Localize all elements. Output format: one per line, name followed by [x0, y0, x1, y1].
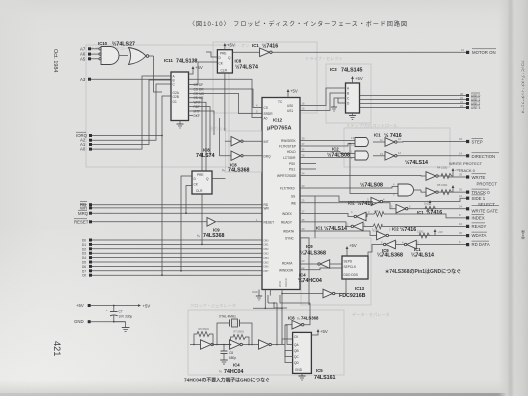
- svg-text:ドライブ・セレクト: ドライブ・セレクト: [305, 55, 343, 62]
- wire FF CLR down to interrupt buffers: [224, 73, 226, 131]
- wire osc to 161 clock: [282, 339, 293, 345]
- svg-text:½74LS08: ½74LS08: [360, 182, 383, 189]
- gate IC10a 74LS27 NOR: [99, 47, 128, 65]
- wire decoder out6 down: [189, 107, 211, 155]
- output terminal STEP: [459, 137, 483, 145]
- svg-text:11: 11: [380, 138, 383, 142]
- svg-text:13: 13: [380, 152, 383, 156]
- svg-text:IC1: IC1: [316, 226, 323, 231]
- svg-text:QB: QB: [294, 349, 299, 353]
- svg-text:6: 6: [459, 240, 461, 244]
- svg-text:D4: D4: [82, 256, 86, 260]
- svg-text:25: 25: [302, 199, 305, 203]
- svg-text:DB7: DB7: [264, 269, 270, 273]
- svg-text:421: 421: [52, 341, 62, 356]
- inverter 7416 write protect: [426, 172, 466, 181]
- svg-text:A7: A7: [80, 46, 86, 51]
- svg-text:12: 12: [459, 194, 462, 198]
- svg-text:½7416: ½7416: [357, 200, 373, 207]
- buffer IC9 74LS368 on reset: [207, 218, 262, 227]
- pullup resistor wdata: [417, 229, 443, 238]
- svg-text:150Ω: 150Ω: [417, 230, 423, 234]
- svg-text:TRACK 0: TRACK 0: [458, 168, 476, 173]
- wire US1 to 145 B: [300, 93, 346, 111]
- svg-text:WPRT/2SIDE: WPRT/2SIDE: [277, 174, 296, 178]
- svg-text:74LS368: 74LS368: [228, 168, 250, 174]
- label IC8 1/2 74LS74: [235, 59, 259, 71]
- wire window vertical: [314, 196, 316, 238]
- wire decoder out1 to FF clock: [189, 62, 218, 85]
- input terminal A1: [80, 142, 92, 147]
- label IC3 74LS145: [330, 67, 363, 73]
- gate pin numbers: [347, 136, 419, 244]
- svg-text:4: 4: [351, 210, 353, 214]
- +5V arrow at FF preset: [224, 43, 235, 50]
- svg-text:12: 12: [398, 151, 401, 155]
- label IC13 FDC9216B: [339, 286, 366, 299]
- section box: data separator: [301, 238, 371, 305]
- input terminal RD DATA: [459, 240, 490, 247]
- svg-text:D2: D2: [82, 247, 86, 251]
- svg-text:⅓: ⅓: [222, 169, 225, 173]
- buffer IC8 74LS368 a: [225, 137, 262, 146]
- svg-text:A0: A0: [264, 116, 268, 120]
- inverter 74HC04 osc3: [259, 340, 286, 349]
- svg-text:第10章: 第10章: [521, 230, 526, 239]
- svg-text:WRF: WRF: [194, 101, 201, 105]
- wire decoder out5 down: [189, 102, 207, 176]
- svg-text:74HC04の不要入力端子はGNDにつなぐ: 74HC04の不要入力端子はGNDにつなぐ: [184, 377, 270, 384]
- svg-text:680p: 680p: [229, 356, 236, 360]
- svg-text:74LS368: 74LS368: [301, 316, 319, 321]
- section box: clock generator: [188, 310, 344, 375]
- output terminal USE2: [460, 100, 480, 106]
- uPD765A pin numbers: [256, 102, 305, 270]
- svg-text:IC9: IC9: [213, 228, 220, 233]
- IC5 74LS161: [293, 332, 312, 373]
- svg-text:A5: A5: [80, 56, 86, 61]
- wire decoder out3 to uPD765 A0pin: [189, 93, 263, 113]
- svg-text:3: 3: [417, 240, 419, 244]
- svg-text:WE: WE: [291, 201, 296, 205]
- svg-text:データ・セパレータ: データ・セパレータ: [352, 311, 390, 318]
- svg-text:R6 560Ω: R6 560Ω: [199, 327, 209, 331]
- wire SYNC down to separator: [300, 238, 309, 305]
- right page edge text: [521, 60, 526, 239]
- svg-text:IC1: IC1: [252, 43, 259, 48]
- wire FLTR/STEP to gate: [300, 144, 355, 147]
- data bus D6: [82, 265, 262, 269]
- page margin note Oct.1984: [52, 49, 58, 72]
- schmitt inverter 74LS14 index: [300, 212, 466, 221]
- buffer IC9 74LS368 sepd: [300, 260, 342, 269]
- input terminal GND: [74, 319, 126, 324]
- svg-text:74LS74: 74LS74: [196, 153, 215, 159]
- svg-text:FLTR/STEP: FLTR/STEP: [279, 145, 296, 149]
- wire HDLD to gate: [300, 152, 355, 154]
- svg-text:10V 330μ: 10V 330μ: [119, 315, 133, 319]
- capacitor C8 680p: [221, 345, 237, 361]
- AND gate IC2a 74LS08: [355, 138, 385, 147]
- svg-text:+5V: +5V: [76, 303, 84, 308]
- data bus CLK: [82, 274, 262, 278]
- label IC1 1/2 7416: [252, 42, 278, 49]
- output terminal SIDE 1 SELECT: [459, 194, 495, 207]
- svg-text:TC: TC: [278, 100, 283, 104]
- wire IORQ to decoder G2A: [92, 96, 171, 136]
- label IC9 74LS368: [197, 228, 225, 240]
- decoder output net labels: [194, 83, 205, 118]
- svg-text:INDEX: INDEX: [472, 216, 485, 221]
- output terminal MOTOR ON: [461, 48, 496, 55]
- svg-text:½74LS14: ½74LS14: [405, 159, 428, 166]
- input terminal RESET: [74, 219, 207, 225]
- svg-text:D7: D7: [82, 269, 86, 273]
- wire FF2 Q stub: [212, 178, 225, 180]
- label IC6 74LS368: [288, 316, 319, 321]
- label IC9 74LS368 sepd: [300, 244, 326, 257]
- input terminal +5V: [76, 303, 150, 308]
- svg-text:+5V: +5V: [195, 65, 203, 70]
- svg-text:〈図10-10〉 フロッピ・ディスク・インターフェース・ボー: 〈図10-10〉 フロッピ・ディスク・インターフェース・ボード回路図: [189, 20, 407, 28]
- wire 145 out to USE2: [360, 103, 467, 105]
- output terminal WRITE PROTECT: [459, 173, 497, 187]
- svg-text:A0: A0: [80, 147, 86, 152]
- +5V arrow at 74LS161: [311, 329, 327, 335]
- junction dot cap: [113, 305, 115, 307]
- svg-text:74LS161: 74LS161: [314, 375, 336, 381]
- svg-text:IC8: IC8: [203, 148, 210, 153]
- input terminal A0: [80, 147, 92, 152]
- svg-text:30: 30: [459, 231, 462, 235]
- svg-text:DB5: DB5: [264, 260, 270, 264]
- output terminal USE1: [460, 96, 480, 102]
- svg-text:IC10: IC10: [98, 41, 108, 46]
- svg-text:RDF: RDF: [194, 105, 201, 109]
- buffer IC8 74LS368 b: [220, 118, 262, 160]
- svg-text:WDATA: WDATA: [283, 230, 295, 234]
- AND gate IC2b 74LS08: [355, 151, 385, 160]
- wire WPRT to inverter: [300, 175, 426, 178]
- inverter 7416 direction: [385, 152, 466, 161]
- svg-text:MTF: MTF: [194, 109, 201, 113]
- svg-text:36: 36: [302, 148, 305, 152]
- label IC11 74LS138: [164, 58, 198, 65]
- data bus D4: [82, 256, 262, 260]
- svg-text:74LS138: 74LS138: [176, 59, 198, 65]
- ground symbol power: [122, 322, 130, 332]
- data bus D7: [82, 269, 262, 273]
- svg-text:¼74LS368: ¼74LS368: [377, 252, 403, 259]
- svg-text:IC4: IC4: [233, 363, 240, 368]
- svg-text:RD DATA: RD DATA: [472, 242, 490, 247]
- label IC2 74LS08: [327, 147, 350, 159]
- svg-text:Oct. 1984: Oct. 1984: [52, 49, 58, 72]
- wire FF2 D from bus: [181, 176, 192, 271]
- svg-text:GND: GND: [252, 290, 258, 294]
- gate IC10b 74LS27 NOR: [129, 48, 154, 65]
- pullup resistor ready: [373, 224, 382, 233]
- inverter 7416 step: [385, 138, 466, 147]
- wire A0 to decoder A: [92, 76, 171, 149]
- label IC5 74LS161: [314, 368, 336, 381]
- svg-text:DRQ: DRQ: [264, 154, 272, 158]
- svg-text:IC12: IC12: [273, 118, 283, 123]
- svg-text:PS0: PS0: [289, 162, 295, 166]
- svg-text:22: 22: [302, 266, 305, 270]
- IC12 uPD765A: [262, 98, 300, 290]
- svg-text:30: 30: [302, 227, 305, 231]
- svg-text:4: 4: [393, 183, 395, 187]
- resistor R6 560: [194, 327, 213, 345]
- inverter IC2 7416 side select: [300, 196, 466, 206]
- svg-text:+5V: +5V: [438, 230, 443, 234]
- svg-text:RDATA: RDATA: [282, 262, 293, 266]
- wire PS1 stub: [300, 168, 316, 170]
- svg-text:SELECT: SELECT: [478, 202, 495, 207]
- svg-text:CS·DR: CS·DR: [194, 87, 205, 91]
- buffer IC6 74LS368: [285, 303, 310, 329]
- svg-text:D3: D3: [82, 252, 86, 256]
- box around 74LS368 buffers: [225, 131, 261, 172]
- svg-text:WINDOW: WINDOW: [279, 268, 293, 272]
- AND gate IC2c 74LS08: [398, 184, 426, 196]
- svg-text:PS1: PS1: [289, 168, 295, 172]
- svg-text:CS·MO: CS·MO: [194, 92, 205, 96]
- label IC8 74LS74 lower: [196, 148, 215, 160]
- wire 145 out to USE0: [360, 95, 467, 97]
- input terminal RD: [80, 201, 262, 207]
- section box: I/O address decoder: [86, 45, 229, 167]
- svg-text:WRITE: WRITE: [472, 175, 486, 180]
- wire gate output down to decoder enable: [154, 56, 163, 92]
- page number 421: [52, 341, 62, 356]
- svg-text:クロック・ジェネレータ: クロック・ジェネレータ: [190, 302, 236, 309]
- IC13 FDC9216B: [342, 256, 368, 279]
- wire 145 out to USE3: [360, 107, 467, 109]
- svg-text:READY: READY: [281, 221, 293, 225]
- svg-text:DB6: DB6: [264, 265, 270, 269]
- label IC1 7416 write gate: [417, 209, 442, 216]
- wire 145 C D tied to ground: [331, 98, 346, 111]
- label IC9 74LS368 rddata: [377, 248, 403, 259]
- svg-text:μPD765A: μPD765A: [267, 126, 292, 132]
- svg-text:∗74LS368のPin1はGNDにつなぐ: ∗74LS368のPin1はGNDにつなぐ: [385, 268, 461, 275]
- svg-text:CS·DF: CS·DF: [194, 83, 204, 87]
- svg-text:RW/SEEK: RW/SEEK: [281, 139, 297, 143]
- svg-text:D6: D6: [82, 265, 86, 269]
- svg-text:FLT/TRK0: FLT/TRK0: [280, 187, 295, 191]
- svg-text:DB3: DB3: [264, 252, 270, 256]
- buffer 74LS368 rddata: [368, 240, 395, 258]
- section box: drive select: [326, 64, 371, 123]
- svg-text:IC4: IC4: [299, 273, 306, 278]
- wire A3 to uPD765 A0: [91, 79, 262, 117]
- svg-text:R4 150Ω: R4 150Ω: [437, 166, 447, 170]
- svg-text:INDEX: INDEX: [282, 212, 293, 216]
- svg-text:DKF: DKF: [194, 114, 200, 118]
- svg-text:READY: READY: [472, 224, 487, 229]
- svg-text:フロッピ・ディスク・インターフェース: フロッピ・ディスク・インターフェース: [521, 60, 526, 113]
- resistor R7 560: [231, 330, 250, 345]
- svg-text:C7: C7: [119, 310, 123, 314]
- svg-text:PRE: PRE: [197, 173, 204, 177]
- wire A2 to decoder C: [92, 84, 171, 140]
- svg-text:IC2: IC2: [332, 147, 339, 152]
- svg-text:35: 35: [302, 218, 305, 222]
- wire second AND input: [350, 144, 398, 194]
- wire PS0 stub: [300, 163, 316, 165]
- svg-text:16: 16: [302, 102, 305, 106]
- ground symbol C8: [220, 360, 228, 364]
- svg-text:¼: ¼: [197, 234, 200, 238]
- svg-text:IC8: IC8: [235, 59, 242, 64]
- svg-text:TRACK 0: TRACK 0: [472, 190, 491, 195]
- svg-text:D5: D5: [82, 261, 86, 265]
- svg-text:¼74HC04: ¼74HC04: [298, 277, 322, 284]
- svg-text:CLR: CLR: [196, 189, 203, 193]
- svg-text:33: 33: [302, 184, 305, 188]
- svg-text:G2B: G2B: [173, 95, 179, 99]
- svg-text:HDLD: HDLD: [287, 150, 296, 154]
- svg-text:8: 8: [459, 213, 461, 217]
- svg-text:IC2: IC2: [392, 227, 399, 232]
- svg-text:5: 5: [393, 193, 395, 197]
- wire decoder out8 stub: [189, 114, 194, 116]
- svg-text:CK: CK: [82, 274, 87, 278]
- inverter 74HC04 osc2: [230, 340, 259, 349]
- uPD765A bottom pin stubs: [253, 290, 283, 345]
- label IC2 7416 wdata: [392, 226, 416, 233]
- uPD765A left pin names: [264, 106, 275, 273]
- wire motor-on to terminal: [272, 51, 466, 53]
- svg-text:MRQ: MRQ: [78, 211, 89, 216]
- svg-text:2: 2: [389, 227, 391, 231]
- wire RW/SEEK to gate: [300, 140, 355, 142]
- ground below 74LS161: [299, 373, 306, 380]
- wire decoder out4 down to FF2 preset: [189, 98, 203, 171]
- pullup resistor R4: [437, 166, 460, 179]
- svg-text:C8: C8: [229, 351, 233, 355]
- inverter 7416 write gate: [396, 204, 466, 213]
- svg-text:IC6: IC6: [288, 316, 295, 321]
- input terminal IORQ: [76, 132, 92, 138]
- flip-flop IC8a 74LS74: [217, 50, 232, 73]
- svg-text:½7416: ½7416: [400, 226, 416, 233]
- svg-text:DB2: DB2: [264, 247, 270, 251]
- pullup resistor index: [374, 209, 384, 217]
- crystal XTAL 4MHz: [214, 315, 252, 345]
- wire FLT/TRK0 to AND: [300, 187, 398, 189]
- svg-text:DB4: DB4: [264, 256, 270, 260]
- inverter 7416 wdata: [377, 231, 466, 240]
- label IC1 74LS14 rddata: [411, 247, 434, 259]
- input terminal A5: [80, 56, 100, 61]
- svg-text:WR: WR: [80, 205, 87, 210]
- wire US0 to 145 A: [300, 88, 346, 106]
- svg-text:12: 12: [351, 143, 354, 147]
- wire 145 out to USE1: [360, 99, 467, 101]
- svg-text:IC9: IC9: [306, 244, 313, 249]
- schmitt inverter 74LS14 rddata: [396, 240, 466, 249]
- wire WE to inverter: [300, 203, 396, 209]
- input terminal A2: [80, 138, 92, 143]
- wire WDATA to buffer: [300, 231, 377, 236]
- label IC4 74HC04 clk: [298, 273, 322, 284]
- svg-text:GND: GND: [74, 319, 84, 324]
- svg-text:LCT/DIR: LCT/DIR: [283, 156, 296, 160]
- svg-text:B: B: [347, 92, 349, 96]
- data bus D3: [82, 252, 262, 256]
- svg-text:⅔74LS27: ⅔74LS27: [112, 41, 135, 47]
- svg-text:XTAL 4MHz: XTAL 4MHz: [219, 315, 236, 319]
- data bus D5: [82, 261, 262, 265]
- svg-text:1kΩ: 1kΩ: [424, 202, 429, 206]
- svg-text:4: 4: [402, 240, 404, 244]
- svg-text:SIDE 1: SIDE 1: [472, 196, 486, 201]
- buffer IC4 74HC04 clk: [281, 279, 346, 298]
- svg-text:+5V: +5V: [290, 89, 298, 94]
- svg-text:+5V: +5V: [143, 303, 151, 308]
- svg-text:+5V: +5V: [455, 168, 460, 172]
- svg-text:US1: US1: [287, 109, 293, 113]
- svg-text:CLR: CLR: [221, 69, 228, 73]
- title caption: [189, 20, 407, 28]
- svg-text:½74LS08: ½74LS08: [327, 152, 350, 159]
- data bus D0: [82, 239, 262, 243]
- svg-text:74LS368: 74LS368: [203, 233, 225, 239]
- wire decoder out7 down: [189, 111, 215, 135]
- svg-text:14: 14: [459, 151, 462, 155]
- svg-text:+5V: +5V: [355, 76, 363, 81]
- svg-text:R7 560Ω: R7 560Ω: [234, 330, 244, 334]
- junction dot gnd: [113, 321, 115, 323]
- svg-text:MOTOR ON: MOTOR ON: [472, 50, 496, 55]
- svg-text:1: 1: [351, 150, 353, 154]
- svg-text:DB1: DB1: [264, 243, 270, 247]
- svg-text:INT: INT: [264, 140, 269, 144]
- svg-text:17: 17: [302, 209, 305, 213]
- svg-text:16: 16: [461, 48, 464, 52]
- output terminal WDATA: [459, 231, 487, 238]
- wire LCT/DIR to gate: [300, 157, 355, 159]
- label IC8 74LS368: [222, 163, 250, 174]
- ground at uPD765A bottom: [252, 290, 262, 301]
- svg-text:A3: A3: [80, 77, 86, 82]
- pullup resistor write gate: [424, 200, 436, 211]
- svg-text:+: +: [106, 309, 108, 312]
- svg-text:½7416: ½7416: [262, 42, 278, 49]
- svg-text:IC1: IC1: [374, 133, 381, 138]
- svg-text:RESET: RESET: [264, 220, 275, 224]
- svg-text:RESET: RESET: [74, 219, 89, 224]
- svg-text:½74LS74: ½74LS74: [235, 64, 258, 71]
- svg-text:D1: D1: [82, 243, 86, 247]
- output terminal USE3: [460, 104, 480, 110]
- input terminal INDEX: [459, 213, 485, 221]
- output terminal TRACK 0: [459, 188, 490, 196]
- input terminal MREQ: [78, 210, 262, 216]
- data bus D2: [82, 247, 262, 251]
- section box: motor-on flip-flop: [213, 42, 317, 113]
- output terminal DIRECTION: [459, 151, 499, 159]
- svg-text:QC: QC: [294, 355, 299, 359]
- svg-text:1: 1: [256, 218, 258, 222]
- svg-text:IC11: IC11: [164, 58, 173, 63]
- input terminal WR: [80, 205, 262, 211]
- svg-text:15: 15: [302, 107, 305, 111]
- svg-text:18: 18: [459, 137, 462, 141]
